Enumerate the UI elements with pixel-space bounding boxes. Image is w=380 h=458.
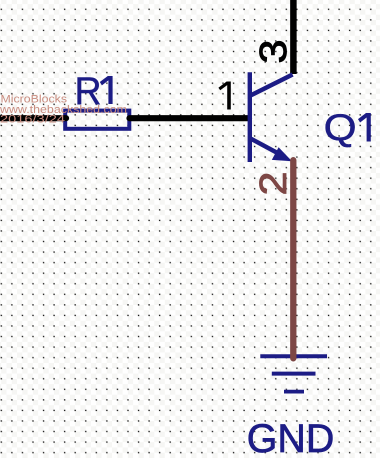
svg-text:2016/3/24: 2016/3/24 (0, 114, 65, 126)
pin number 1 (218, 82, 230, 110)
transistor Q1 base bar (248, 72, 252, 162)
wire base-right (130, 115, 250, 121)
transistor Q1 emitter arrowhead (272, 147, 292, 161)
svg-text:3: 3 (253, 40, 295, 64)
transistor Q1 collector line (251, 75, 293, 96)
ground symbol bar 3 (284, 390, 304, 394)
ground symbol bar 2 (272, 372, 316, 376)
svg-text:GND: GND (247, 417, 334, 458)
wire emitter (brown) (290, 160, 296, 358)
svg-text:Q: Q (324, 106, 357, 148)
ground symbol bar 1 (260, 354, 327, 358)
svg-text:2: 2 (253, 172, 295, 196)
resistor R1 (65, 111, 129, 129)
transistor Q1 emitter line (251, 139, 286, 158)
wire collector (top) (290, 0, 297, 74)
wire base-left (0, 115, 66, 121)
